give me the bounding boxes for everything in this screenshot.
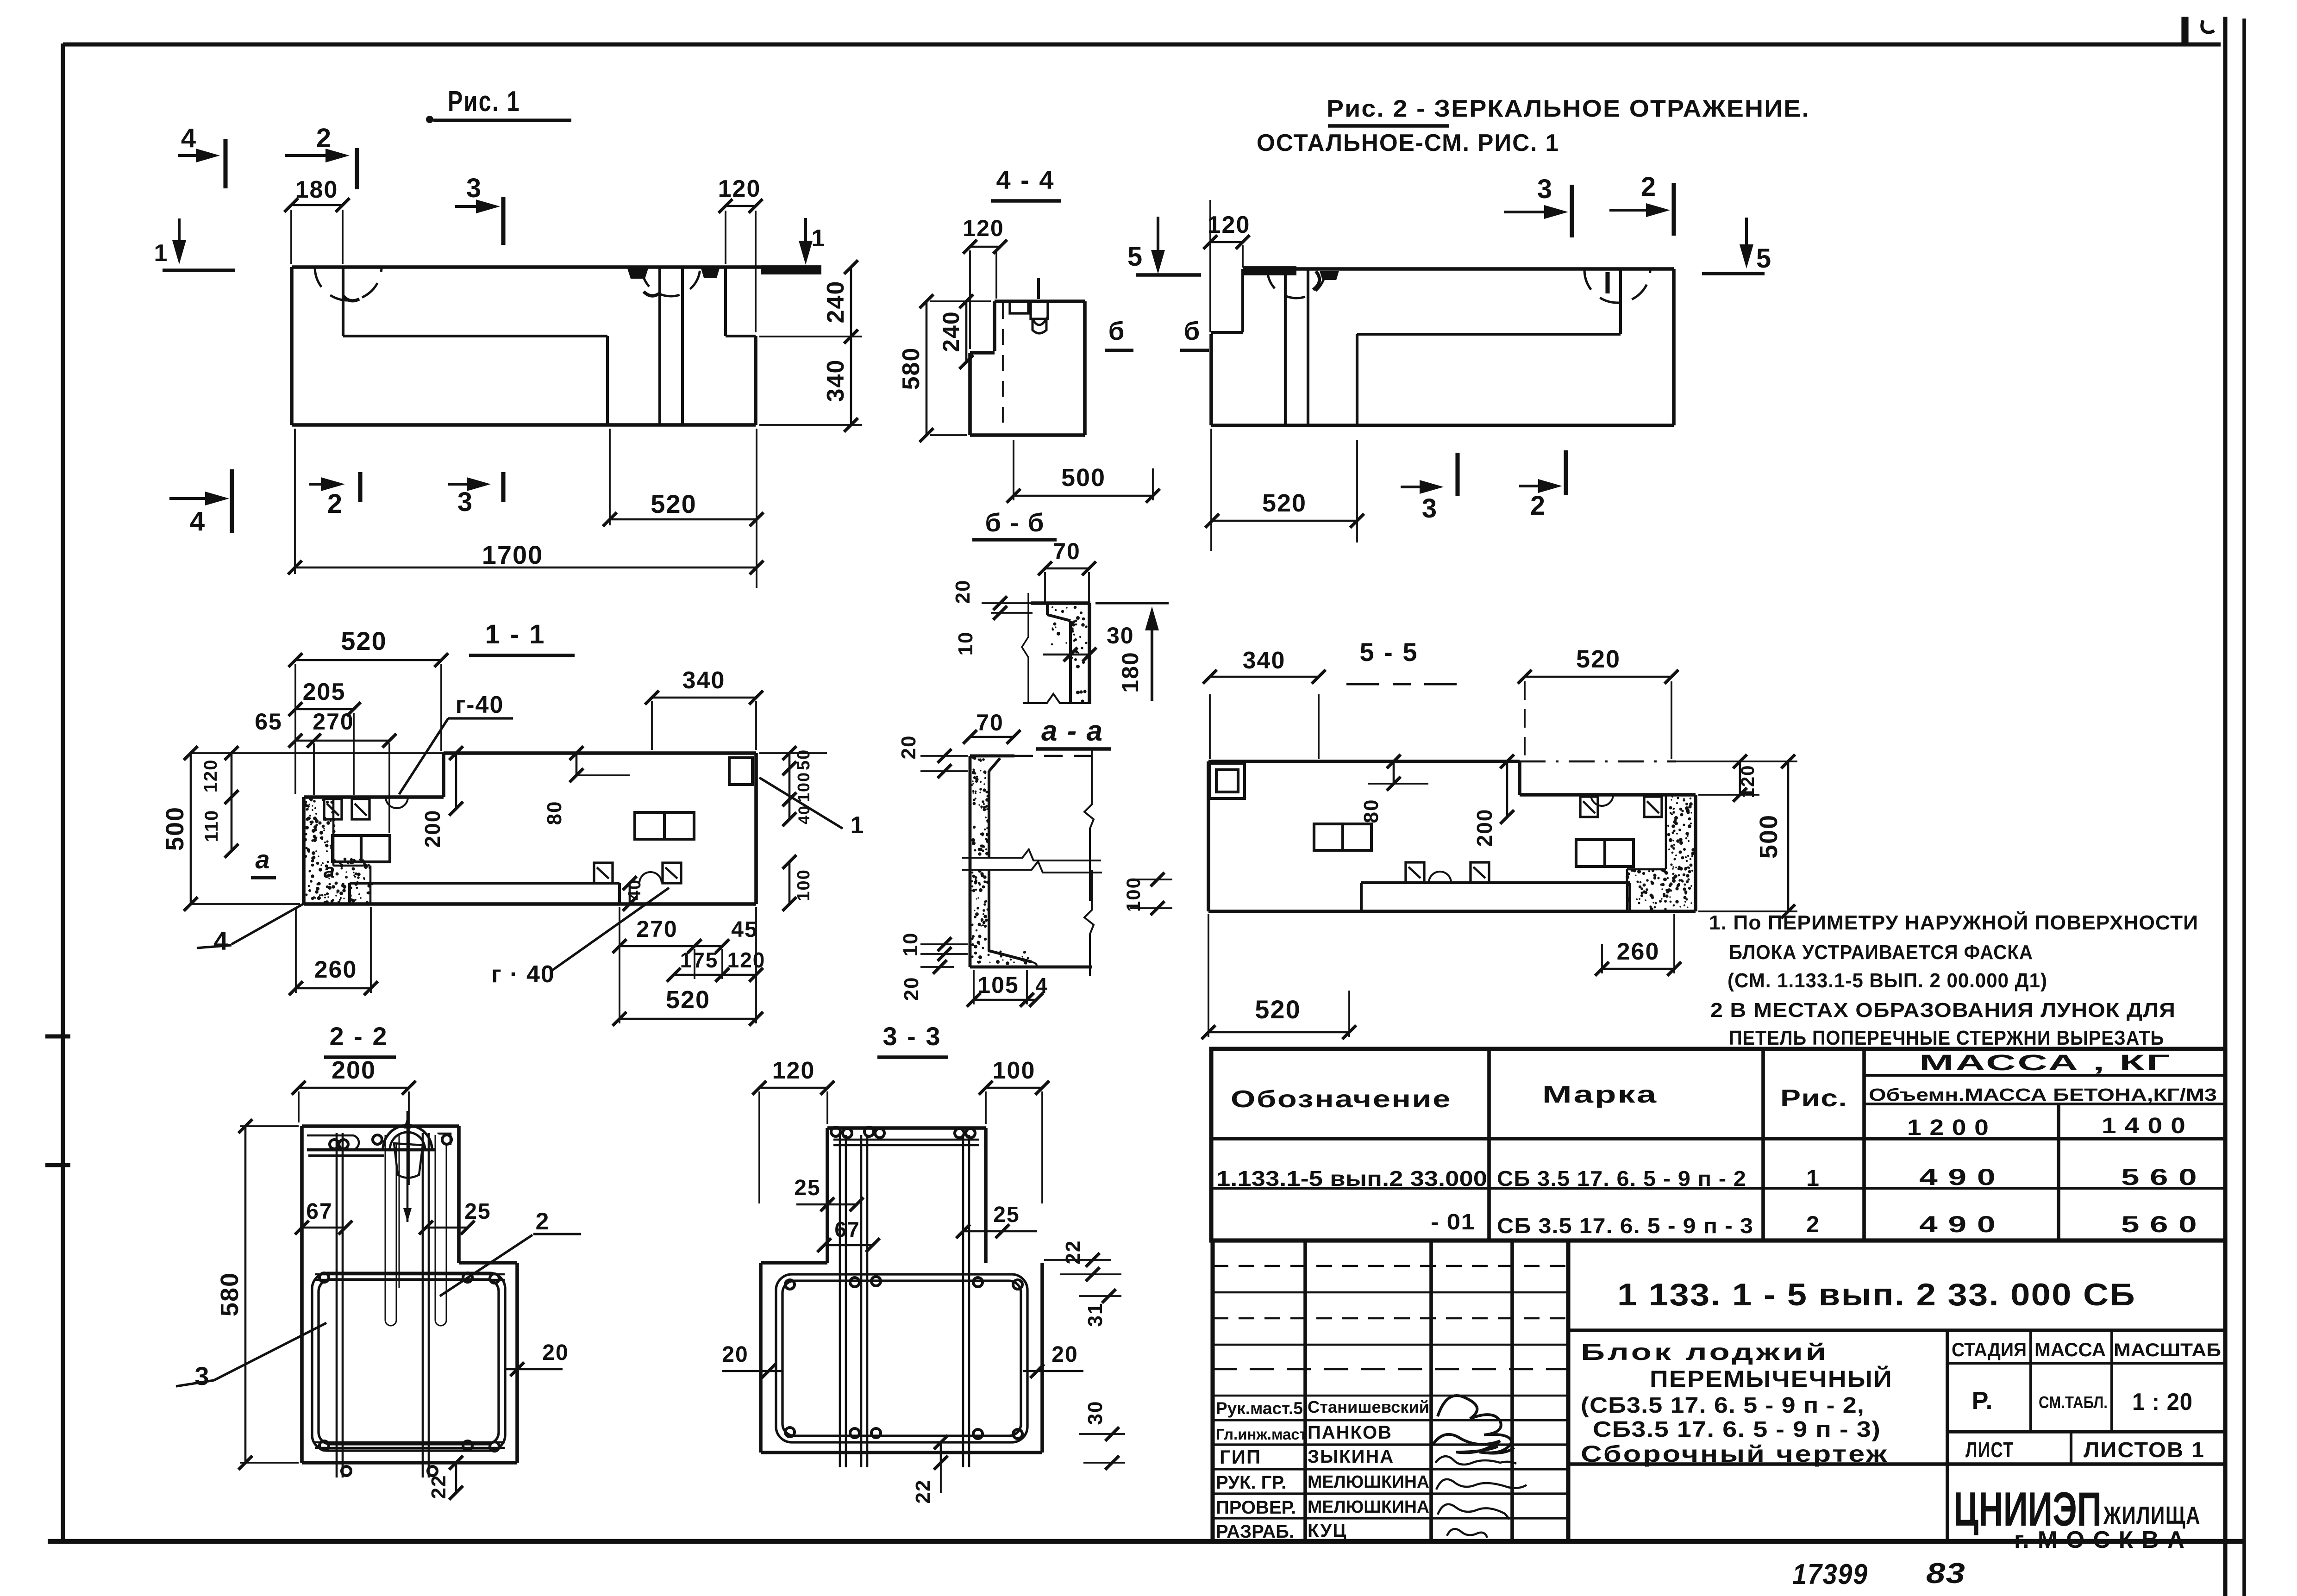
svg-text:a: a [324, 860, 336, 882]
svg-text:3: 3 [194, 1361, 210, 1390]
svg-text:a: a [255, 845, 270, 874]
svg-text:ЛИСТ: ЛИСТ [1965, 1438, 2014, 1462]
1-1 dims left [191, 752, 444, 754]
svg-text:580: 580 [898, 347, 925, 390]
svg-text:МЕЛЮШКИНА: МЕЛЮШКИНА [1308, 1497, 1429, 1517]
fig1 block outline [292, 265, 761, 269]
a-a mid break lines [962, 849, 1101, 860]
svg-text:Марка: Марка [1542, 1081, 1658, 1108]
svg-text:260: 260 [314, 956, 357, 983]
1-1 dims right [759, 752, 827, 754]
section a-a profile [971, 756, 989, 855]
svg-text:4 - 4: 4 - 4 [996, 165, 1055, 194]
svg-text:22: 22 [1062, 1240, 1084, 1265]
svg-text:2 - 2: 2 - 2 [329, 1022, 388, 1051]
svg-text:10: 10 [899, 932, 922, 957]
svg-text:30: 30 [1084, 1401, 1107, 1425]
section 4-4 outline [995, 299, 1085, 303]
svg-text:500: 500 [161, 806, 189, 851]
svg-text:45: 45 [731, 917, 757, 942]
svg-text:МАСШТАБ: МАСШТАБ [2114, 1340, 2221, 1360]
svg-text:б - б: б - б [985, 508, 1045, 537]
svg-text:СБ 3.5 17. 6. 5 - 9 п - 2: СБ 3.5 17. 6. 5 - 9 п - 2 [1497, 1166, 1746, 1191]
svg-text:175: 175 [680, 948, 719, 972]
svg-text:83: 83 [1926, 1558, 1965, 1590]
table [1211, 1049, 2225, 1241]
svg-text:65: 65 [255, 709, 282, 735]
svg-text:4: 4 [213, 926, 229, 955]
svg-text:БЛОКА УСТРАИВАЕТСЯ ФАСКА: БЛОКА УСТРАИВАЕТСЯ ФАСКА [1729, 941, 2033, 964]
svg-text:520: 520 [341, 626, 387, 655]
svg-text:180: 180 [295, 176, 338, 203]
svg-text:Блок лоджий: Блок лоджий [1581, 1339, 1829, 1365]
svg-text:70: 70 [1053, 538, 1081, 564]
3-3 outline [827, 1126, 986, 1130]
svg-text:31: 31 [1084, 1303, 1107, 1327]
svg-text:520: 520 [1255, 995, 1301, 1024]
svg-text:б: б [1184, 316, 1201, 345]
section b-b profile [1051, 606, 1085, 649]
svg-text:РУК. ГР.: РУК. ГР. [1216, 1472, 1286, 1493]
svg-text:1 2 0 0: 1 2 0 0 [1907, 1116, 1989, 1140]
svg-text:520: 520 [651, 489, 696, 518]
svg-text:г. М О С К В А: г. М О С К В А [2014, 1527, 2185, 1553]
svg-text:(СБ3.5 17. 6. 5 - 9 п - 2,: (СБ3.5 17. 6. 5 - 9 п - 2, [1581, 1393, 1865, 1418]
svg-text:5: 5 [1756, 243, 1772, 274]
svg-text:3: 3 [457, 487, 473, 517]
svg-text:100: 100 [794, 772, 813, 802]
svg-text:5: 5 [1127, 242, 1143, 272]
svg-text:20: 20 [1051, 1342, 1078, 1367]
svg-text:2: 2 [536, 1208, 550, 1235]
svg-text:Рис. 2 - ЗЕРКАЛЬНОЕ ОТРАЖЕНИЕ: Рис. 2 - ЗЕРКАЛЬНОЕ ОТРАЖЕНИЕ. [1327, 95, 1810, 122]
svg-text:20: 20 [897, 735, 920, 760]
svg-text:ПАНКОВ: ПАНКОВ [1308, 1422, 1392, 1443]
svg-text:205: 205 [303, 679, 346, 705]
svg-text:Рук.маст.5: Рук.маст.5 [1216, 1399, 1303, 1418]
5-5 right wall (concrete) [1666, 796, 1695, 908]
svg-text:3: 3 [1537, 174, 1553, 204]
a-a right edge with breaks [1084, 749, 1094, 901]
svg-text:180: 180 [1117, 651, 1143, 692]
svg-text:3: 3 [466, 173, 482, 203]
fig1 dimensions [290, 210, 292, 264]
title block [1213, 1241, 2225, 1541]
svg-text:Объемн.МАССА БЕТОНА,КГ/М3: Объемн.МАССА БЕТОНА,КГ/М3 [1869, 1085, 2217, 1105]
svg-text:ОСТАЛЬНОЕ-СМ. РИС. 1: ОСТАЛЬНОЕ-СМ. РИС. 1 [1257, 130, 1559, 156]
svg-text:1. По ПЕРИМЕТРУ НАРУЖНОЙ ПОВ: 1. По ПЕРИМЕТРУ НАРУЖНОЙ ПОВЕРХНОСТИ [1709, 910, 2198, 934]
svg-text:240: 240 [938, 311, 964, 352]
svg-text:МАССА: МАССА [2034, 1339, 2106, 1360]
svg-text:4 9 0: 4 9 0 [1919, 1211, 1996, 1237]
svg-text:ГИП: ГИП [1220, 1446, 1261, 1468]
2-2 top flat bars [307, 1135, 359, 1150]
svg-text:80: 80 [1360, 799, 1383, 823]
1-1 dims top [294, 664, 296, 794]
svg-text:г · 40: г · 40 [491, 961, 555, 988]
3-3 cage bars [776, 1274, 1027, 1442]
2-2 rebar circles [330, 1140, 339, 1149]
2-2 lifting loop [383, 1125, 432, 1150]
svg-text:120: 120 [718, 175, 761, 202]
svg-text:4 9 0: 4 9 0 [1919, 1164, 1996, 1190]
svg-text:б: б [1108, 316, 1126, 345]
section 1-1 outline [304, 795, 444, 799]
section b-b dims [982, 602, 1031, 604]
svg-text:СБ 3.5 17. 6. 5 - 9 п - 3: СБ 3.5 17. 6. 5 - 9 п - 3 [1497, 1214, 1753, 1238]
svg-text:2: 2 [1806, 1211, 1820, 1237]
svg-text:4: 4 [1035, 973, 1048, 997]
svg-text:ПРОВЕР.: ПРОВЕР. [1216, 1497, 1296, 1518]
section 5-5 outline [1208, 760, 1520, 763]
svg-text:4: 4 [181, 123, 197, 153]
svg-text:120: 120 [1738, 765, 1758, 798]
svg-text:20: 20 [900, 977, 923, 1001]
svg-text:100: 100 [794, 869, 814, 901]
svg-text:РАЗРАБ.: РАЗРАБ. [1216, 1521, 1294, 1542]
svg-text:2: 2 [316, 123, 332, 153]
signatures [1438, 1396, 1514, 1453]
section b-b dims top [1044, 572, 1046, 602]
sheet frame [63, 42, 2221, 46]
svg-text:520: 520 [666, 986, 710, 1014]
svg-text:120: 120 [727, 948, 766, 972]
svg-text:ЗЫКИНА: ЗЫКИНА [1308, 1446, 1394, 1467]
svg-text:120: 120 [772, 1057, 815, 1084]
svg-text:- 01: - 01 [1431, 1210, 1475, 1234]
svg-text:1 133. 1 - 5 вып. 2 33. 000 С: 1 133. 1 - 5 вып. 2 33. 000 СБ [1617, 1277, 2136, 1312]
svg-text:270: 270 [636, 916, 677, 942]
svg-text:(СМ. 1.133.1-5 ВЫП. 2 00.000: (СМ. 1.133.1-5 ВЫП. 2 00.000 Д1) [1727, 969, 2047, 992]
svg-text:25: 25 [794, 1176, 820, 1200]
svg-text:1 : 20: 1 : 20 [2132, 1389, 2193, 1415]
svg-text:340: 340 [822, 359, 849, 402]
svg-text:10: 10 [954, 631, 977, 656]
svg-text:340: 340 [682, 667, 726, 694]
svg-text:СБ3.5 17. 6. 5 - 9 п - 3): СБ3.5 17. 6. 5 - 9 п - 3) [1593, 1417, 1881, 1442]
svg-text:200: 200 [420, 810, 444, 848]
2-2 right top hook [438, 1134, 451, 1145]
3-3 dims top [758, 1091, 760, 1203]
svg-text:2 В МЕСТАХ ОБРАЗОВАНИЯ ЛУНОК: 2 В МЕСТАХ ОБРАЗОВАНИЯ ЛУНОК ДЛЯ [1710, 999, 2176, 1022]
svg-text:30: 30 [1107, 623, 1134, 648]
svg-text:67: 67 [834, 1217, 860, 1241]
svg-text:3: 3 [1422, 493, 1438, 524]
svg-text:22: 22 [912, 1479, 934, 1504]
5-5 dims [1209, 694, 1211, 759]
fig1 lifting loop lunes [315, 267, 382, 300]
svg-text:70: 70 [976, 710, 1004, 736]
1-1 dims bottom [295, 907, 297, 993]
2-2 dims top [298, 1091, 300, 1122]
1-1 left wall (concrete) [303, 798, 336, 904]
fig2 block outline [1243, 267, 1674, 271]
svg-text:5 6 0: 5 6 0 [2121, 1211, 2197, 1237]
svg-text:Обозначение: Обозначение [1231, 1086, 1452, 1113]
svg-text:17399: 17399 [1792, 1559, 1868, 1590]
svg-text:67: 67 [306, 1199, 332, 1224]
svg-text:5 6 0: 5 6 0 [2121, 1164, 2197, 1190]
svg-text:4: 4 [190, 506, 206, 536]
5-5 groove details [1210, 763, 1245, 798]
section 4-4 dims [969, 250, 971, 349]
svg-text:120: 120 [200, 759, 221, 793]
svg-text:ПЕТЕЛЬ ПОПЕРЕЧНЫЕ СТЕРЖНИ ВЫ: ПЕТЕЛЬ ПОПЕРЕЧНЫЕ СТЕРЖНИ ВЫРЕЗАТЬ [1729, 1027, 2164, 1049]
svg-text:50: 50 [794, 749, 814, 770]
svg-text:260: 260 [1617, 938, 1660, 965]
svg-text:520: 520 [1576, 645, 1621, 673]
svg-text:20: 20 [951, 580, 974, 604]
svg-text:2: 2 [327, 489, 343, 519]
3-3 labels [827, 1203, 857, 1206]
1-1 groove details [324, 799, 342, 819]
svg-text:80: 80 [543, 801, 566, 825]
svg-text:25: 25 [464, 1199, 491, 1224]
2-2 outline [302, 1124, 459, 1128]
svg-text:520: 520 [1262, 489, 1307, 517]
svg-text:22: 22 [427, 1475, 450, 1499]
svg-text:20: 20 [722, 1342, 748, 1367]
svg-text:1.133.1-5 вып.2 33.000: 1.133.1-5 вып.2 33.000 [1216, 1166, 1487, 1191]
svg-text:СТАДИЯ: СТАДИЯ [1952, 1339, 2027, 1360]
svg-text:1: 1 [812, 225, 826, 252]
svg-text:105: 105 [977, 972, 1019, 998]
svg-text:200: 200 [1472, 809, 1496, 847]
svg-text:110: 110 [201, 810, 222, 842]
svg-text:580: 580 [216, 1272, 244, 1316]
svg-text:120: 120 [1208, 212, 1251, 238]
svg-text:a - a: a - a [1041, 715, 1103, 747]
svg-text:3 - 3: 3 - 3 [882, 1022, 941, 1051]
svg-text:1700: 1700 [482, 540, 544, 569]
svg-text:МАССА , КГ: МАССА , КГ [1919, 1051, 2172, 1075]
svg-text:500: 500 [1061, 464, 1106, 492]
svg-text:20: 20 [542, 1340, 569, 1365]
2-2 cage bars [312, 1273, 505, 1451]
svg-text:Р.: Р. [1972, 1387, 1994, 1415]
svg-text:Рис.: Рис. [1780, 1085, 1847, 1112]
svg-text:ПЕРЕМЫЧЕЧНЫЙ: ПЕРЕМЫЧЕЧНЫЙ [1650, 1365, 1893, 1392]
svg-text:ЛИСТОВ 1: ЛИСТОВ 1 [2084, 1438, 2205, 1462]
svg-text:2: 2 [1530, 491, 1546, 521]
a-a dims [920, 755, 968, 757]
doc number [1568, 1328, 2225, 1332]
2-2 labels [302, 1227, 345, 1229]
svg-text:1: 1 [154, 240, 169, 267]
svg-text:100: 100 [1122, 877, 1144, 912]
svg-text:120: 120 [963, 215, 1004, 241]
fig2 dimensions [1209, 200, 1211, 332]
svg-text:СМ.ТАБЛ.: СМ.ТАБЛ. [2039, 1393, 2108, 1412]
svg-text:500: 500 [1755, 814, 1783, 859]
svg-text:200: 200 [332, 1056, 376, 1084]
svg-text:1: 1 [1806, 1165, 1820, 1191]
svg-text:2: 2 [1641, 172, 1657, 202]
svg-text:1 - 1: 1 - 1 [485, 619, 545, 649]
svg-text:КУЦ: КУЦ [1308, 1521, 1347, 1541]
3-3 rebar circles [831, 1127, 840, 1136]
stamp right columns [1946, 1330, 1949, 1541]
svg-text:МЕЛЮШКИНА: МЕЛЮШКИНА [1308, 1472, 1429, 1492]
svg-text:Гл.инж.маст: Гл.инж.маст [1216, 1426, 1307, 1443]
svg-text:5 - 5: 5 - 5 [1359, 637, 1418, 667]
svg-text:100: 100 [993, 1057, 1036, 1084]
svg-text:Рис. 1: Рис. 1 [448, 86, 520, 118]
svg-text:ЖИЛИЩА: ЖИЛИЩА [2103, 1502, 2201, 1529]
svg-text:240: 240 [822, 281, 849, 324]
svg-text:г-40: г-40 [456, 692, 504, 718]
svg-text:270: 270 [313, 709, 354, 735]
svg-text:25: 25 [993, 1203, 1020, 1227]
fig2 lifting loop lunes [1267, 269, 1326, 298]
svg-text:1 4 0 0: 1 4 0 0 [2102, 1114, 2186, 1138]
svg-text:340: 340 [1243, 647, 1286, 674]
svg-text:Станишевский: Станишевский [1308, 1397, 1429, 1416]
svg-text:1: 1 [851, 812, 865, 839]
